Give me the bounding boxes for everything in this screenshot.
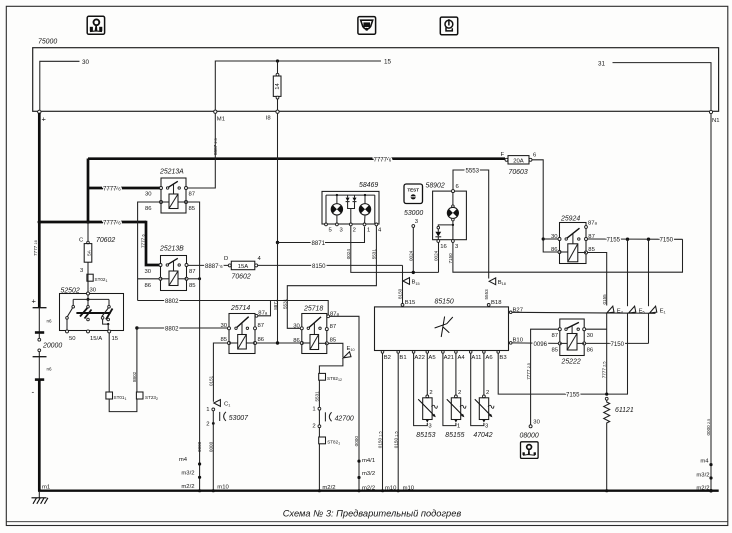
junction m2/2 ground tap [198, 489, 201, 492]
ECU bottom pin A22 [412, 351, 425, 361]
svg-text:7777 2.5: 7777 2.5 [526, 363, 531, 380]
component label 58469 [359, 182, 378, 189]
svg-text:75000: 75000 [38, 39, 57, 46]
junction 53007 ground [212, 489, 215, 492]
junction 0024 [412, 271, 415, 274]
pin 30 label ignition switch [90, 288, 97, 294]
wire 15 inside fuse box [215, 61, 381, 111]
wire 8150 drop to ECU B15 [402, 265, 404, 303]
wire 42700 to ST82_1 [318, 428, 320, 437]
junction x88 y222 [86, 220, 90, 224]
ECU bottom pin B1 [397, 351, 407, 361]
pin B10 label [513, 337, 524, 343]
svg-text:1: 1 [457, 423, 460, 429]
wire 25213B pin85 to 0000 drop [188, 278, 200, 280]
wire label 5553 [466, 167, 480, 174]
node 75000 fuse-box label [38, 39, 57, 46]
svg-text:m4/1: m4/1 [362, 458, 375, 464]
junction 8871 on 86 rail [276, 341, 279, 344]
junction 8802 [135, 326, 138, 329]
wire 7150 drop to 25222 pin 86 rail [648, 239, 650, 343]
icon engine preheat (top middle) [358, 17, 376, 35]
svg-text:30: 30 [82, 59, 90, 66]
connector ST82_12 [319, 373, 342, 381]
svg-text:8802: 8802 [165, 326, 179, 333]
junction 85 drop [198, 277, 201, 280]
connector diode C1 [214, 400, 231, 408]
wire label 7150 upper [660, 237, 674, 244]
node m1 label [42, 484, 50, 490]
svg-text:47042: 47042 [473, 432, 492, 439]
svg-text:8871: 8871 [273, 299, 278, 310]
control unit 85150 [375, 307, 509, 351]
component label 25924 [560, 216, 580, 223]
svg-text:2: 2 [353, 228, 356, 234]
node m2/2 label right [696, 486, 709, 492]
svg-text:87: 87 [330, 324, 337, 330]
node m10 label B2 [385, 485, 397, 491]
wire 25718 87a down to ground stack [330, 316, 359, 491]
wire label 0000 rotated x199 [197, 441, 202, 452]
svg-text:0024: 0024 [409, 250, 414, 261]
svg-text:B1: B1 [399, 355, 406, 361]
wire 8802 lower to relay 25714 pin 30 [137, 327, 228, 329]
wire 0024 test drop [412, 227, 414, 272]
component label 70602 (fuse C) [96, 237, 115, 244]
svg-text:2: 2 [458, 390, 461, 396]
node m3/2 label [181, 471, 194, 477]
svg-text:TEST: TEST [407, 188, 419, 193]
svg-text:2: 2 [206, 421, 209, 427]
wire ST01 u-turn to ST23 [109, 399, 137, 412]
svg-text:5531: 5531 [372, 249, 377, 260]
svg-text:85: 85 [189, 206, 196, 212]
wire A22 to sensor 85153 bottom [414, 353, 428, 425]
wire 7777 riser x88 (thick) [87, 159, 90, 224]
wire label 0096 [534, 341, 548, 348]
junction m2/2 ground tap right [709, 489, 713, 493]
wire 0024 riser to 58902 pin 16 [438, 241, 440, 272]
svg-text:n6: n6 [47, 367, 53, 372]
wire 8887 from M1 to relay 25213A pin 87 [188, 113, 216, 188]
svg-text:86: 86 [587, 348, 594, 354]
svg-text:85: 85 [189, 283, 196, 289]
pin circle 08000 [529, 425, 532, 428]
svg-text:42700: 42700 [335, 415, 354, 422]
svg-text:8150: 8150 [398, 288, 403, 299]
caption separator line [6, 521, 728, 523]
svg-text:30: 30 [551, 234, 558, 240]
wire B27 rail with E connectors [512, 312, 656, 313]
junction m3/2 tap right [709, 476, 712, 479]
wire E10 to ST82_12 [319, 359, 343, 374]
svg-text:m2/2: m2/2 [181, 484, 194, 490]
svg-text:85155: 85155 [445, 432, 464, 439]
wire 0150 from B2 to ground [382, 353, 384, 491]
svg-text:85150: 85150 [435, 298, 454, 305]
svg-text:0000: 0000 [197, 441, 202, 452]
pin 30 label 08000 [533, 420, 540, 426]
component label 25714 [230, 305, 250, 312]
wire 30 inside fuse box [40, 61, 80, 111]
svg-text:A4: A4 [458, 355, 466, 361]
junction B1 ground [397, 489, 400, 492]
svg-text:31: 31 [598, 60, 606, 67]
glow indicator lamp 58902 [433, 184, 467, 250]
svg-text:5A: 5A [87, 249, 92, 256]
ECU bottom pin A11 [469, 351, 481, 361]
svg-text:25222: 25222 [561, 358, 581, 365]
svg-text:C: C [79, 238, 84, 244]
node m4 label [179, 457, 188, 463]
wire 0155/7777 drop through E4 to 7155 rail [606, 313, 608, 394]
svg-text:0024: 0024 [346, 249, 351, 260]
component label 25718 [303, 305, 323, 312]
svg-text:15A: 15A [238, 264, 249, 270]
node m2/2 label 42700 [322, 485, 335, 491]
connector ST23_2 [136, 392, 158, 401]
component label 25213A [159, 169, 184, 176]
svg-text:7777 16: 7777 16 [33, 240, 38, 256]
relay 25213B [144, 256, 196, 291]
svg-text:m2/2: m2/2 [362, 485, 375, 491]
svg-text:30: 30 [533, 420, 540, 426]
svg-text:86: 86 [144, 283, 151, 289]
wire 7155 drop to B3 rail [627, 239, 629, 394]
svg-text:7150: 7150 [611, 341, 625, 348]
svg-text:5553: 5553 [484, 289, 489, 300]
wire fuse C feed from junction [87, 222, 89, 242]
wire 25714 pin85 to 0151 [213, 343, 227, 402]
flame glow plug 42700 [312, 407, 354, 430]
svg-text:30: 30 [144, 269, 151, 275]
svg-text:86: 86 [145, 206, 152, 212]
svg-text:58902: 58902 [426, 182, 445, 189]
wire label 8871 rotated [273, 299, 278, 310]
wire ignition 15 to ST01 [108, 333, 110, 392]
wire 5531 from 58469 pin 4 to relay 25718 pin 30 [287, 226, 376, 328]
svg-text:A21: A21 [444, 355, 454, 361]
pin battery plus terminal circle [38, 110, 41, 113]
svg-text:0000: 0000 [209, 441, 214, 452]
wire 25213A pin86 drop to 8802 [138, 202, 161, 301]
svg-text:A11: A11 [471, 355, 481, 361]
ground bus bottom (thick) [38, 490, 719, 492]
svg-text:8802: 8802 [165, 298, 179, 305]
svg-text:14: 14 [275, 83, 281, 90]
svg-text:08000: 08000 [520, 433, 539, 440]
lamp cluster 58469 [322, 191, 382, 233]
wire 86 rail 25714 to 25718 [257, 342, 302, 344]
svg-text:7777 2.5: 7777 2.5 [602, 362, 607, 379]
pin B27 label [513, 308, 523, 314]
svg-text:1: 1 [367, 228, 370, 234]
svg-text:15/A: 15/A [90, 336, 102, 342]
wire label 0024 rotated pin2 [346, 249, 351, 260]
wire 61121 to ground [606, 425, 608, 491]
svg-text:0000 2.5: 0000 2.5 [706, 419, 711, 436]
relay 25222 [551, 319, 593, 356]
wire label 0024 rotated riser [434, 250, 439, 261]
svg-text:2: 2 [312, 424, 315, 430]
wire ST82_1 to ground [318, 444, 320, 491]
wire label 5553 rotated [484, 289, 489, 300]
buzzer 53007 [206, 407, 249, 427]
wire label 0150 1.5 rotated B2 [378, 431, 383, 448]
svg-text:86: 86 [293, 338, 300, 344]
svg-text:0096: 0096 [534, 341, 548, 348]
svg-text:8887 2.5: 8887 2.5 [213, 138, 218, 155]
junction m3/2 tap right-center [357, 476, 360, 479]
svg-text:m2/2: m2/2 [322, 485, 335, 491]
svg-text:n6: n6 [47, 319, 53, 324]
svg-text:25924: 25924 [560, 216, 580, 223]
component label 25213B [159, 246, 184, 253]
svg-text:53000: 53000 [404, 210, 423, 217]
wire 5531 ST82 to 42700 [318, 380, 320, 407]
svg-text:A22: A22 [414, 355, 424, 361]
svg-text:0150 1.5: 0150 1.5 [378, 431, 383, 448]
wire 5553 from 58902 pin 6 over to B18 drop [453, 170, 489, 279]
connector ST02_1 [87, 274, 108, 283]
ECU bottom pin A4 [455, 351, 466, 361]
wire 8150 fuse D to ECU B15 branch [258, 264, 403, 266]
wire label 8887 6 [205, 263, 223, 270]
wire label 0000 rotated x359 [354, 436, 359, 447]
wire fuse F to relay 25924 [532, 160, 559, 252]
wire A11 to sensor 47042 bottom [471, 353, 484, 425]
svg-text:25213B: 25213B [159, 246, 184, 253]
svg-text:85: 85 [551, 348, 558, 354]
pin B15 circle [401, 304, 404, 307]
connector E5 [629, 306, 645, 314]
svg-text:m3/2: m3/2 [696, 472, 709, 478]
ECU bottom pin B2 [381, 351, 391, 361]
svg-text:m10: m10 [403, 485, 415, 491]
connector E4 [607, 306, 623, 314]
wire label 8871 [312, 240, 326, 247]
pin B10 stub [509, 342, 513, 345]
junction 25924 pin30 feed [542, 237, 545, 240]
wire label 0150 1.5 rotated B1 [393, 431, 398, 448]
wire 8887 6 from 25213B pin 87 to fuse D [188, 264, 229, 266]
sensor 47042 [475, 390, 494, 429]
wire 7155/7150 from 25924 pin 87 [588, 238, 683, 240]
fuse C 5A [79, 238, 92, 263]
wire 7150 from 58902 pin 3 [453, 239, 683, 272]
wire 0155 from 25924 pin 85 to E4 [588, 253, 607, 306]
relay 25213A [145, 178, 196, 213]
component label 25222 [561, 358, 581, 365]
wire 25222 pin 30 drop to 7150 rail [586, 328, 607, 330]
wire 7150 rail from 25222 pin 86 [586, 342, 649, 344]
pin I8 terminal circle [276, 110, 279, 113]
svg-text:m4: m4 [700, 459, 709, 465]
wire 7777 main feed y158 to fuse F (thick) [88, 157, 505, 160]
resistor 61121 [604, 397, 610, 425]
wire label 7777 6 on y222 [103, 220, 121, 227]
svg-text:A5: A5 [428, 355, 436, 361]
svg-text:7777 6: 7777 6 [141, 234, 146, 248]
component label 85155 [445, 432, 464, 439]
node plus label below fuse box [42, 115, 47, 124]
svg-text:85153: 85153 [416, 432, 435, 439]
connector E1 [650, 306, 666, 314]
svg-text:I8: I8 [266, 116, 272, 122]
ECU bottom pin A5 [426, 351, 436, 361]
wire label 7155 lower [566, 392, 580, 399]
junction 8871 [276, 241, 279, 244]
relay 25924 [551, 221, 598, 264]
junction 7777 branch at battery column [38, 220, 42, 224]
svg-text:58469: 58469 [359, 182, 378, 189]
svg-text:8871: 8871 [312, 240, 326, 247]
pin B15 label [405, 300, 416, 306]
node m3/2 label right [696, 472, 709, 478]
pin B18 label [491, 300, 502, 306]
wire A6 to sensor 47042 top [483, 353, 485, 395]
wire label 8802 lower [165, 326, 179, 333]
wire 25213B pin86 link [138, 278, 161, 280]
component label 85150 [435, 298, 454, 305]
wire 7777 battery positive feed (thick) [38, 113, 41, 308]
node 31 label [598, 60, 606, 67]
fuse 14 [273, 73, 281, 99]
wire label 0000 2.5 rotated N1 [706, 419, 711, 436]
wire label 7777 6 rotated on x146 [141, 234, 146, 248]
connector diode B18 [489, 278, 506, 286]
wire label 5531 rotated drop [283, 298, 288, 309]
svg-text:87: 87 [551, 333, 558, 339]
svg-text:B18: B18 [491, 300, 502, 306]
junction 61121 tap [605, 393, 608, 396]
pin N1 terminal circle [709, 110, 712, 113]
wire 25222 pin 87 to 08000 [531, 329, 559, 425]
pin 3 label fuse C [80, 268, 84, 274]
wire label 0151 rotated [209, 375, 214, 386]
svg-text:2: 2 [486, 390, 489, 396]
connector ST01_1 [106, 392, 127, 401]
junction m3/2 tap [198, 476, 201, 479]
node M1 label [217, 116, 225, 122]
svg-text:m10: m10 [217, 484, 229, 490]
node m2/2 label center [362, 485, 375, 491]
sensor 85153 [418, 390, 437, 429]
wire A21 to sensor 85155 bottom [443, 353, 456, 425]
wire to 25924 pin 30 [543, 238, 558, 240]
svg-text:87: 87 [189, 192, 196, 198]
node m10 label 53007 [217, 484, 229, 490]
svg-text:30: 30 [587, 333, 594, 339]
wire label 8150 [312, 263, 326, 270]
wire label 8802 upper [165, 298, 179, 305]
wire N1 ground return [710, 114, 712, 492]
wire label 7150 lower [611, 341, 625, 348]
wire label 5531 rotated 42700 [315, 391, 320, 402]
wire 0024 from 58469 pin 2 [351, 226, 439, 273]
node m4 label right [700, 459, 709, 465]
svg-text:8802: 8802 [132, 371, 137, 382]
svg-text:25714: 25714 [230, 305, 250, 312]
svg-text:0000: 0000 [354, 436, 359, 447]
svg-text:7150: 7150 [660, 237, 674, 244]
ECU bottom pin A21 [442, 351, 454, 361]
node m4/1 label [362, 458, 375, 464]
wire label 0000 rotated 53007 [209, 441, 214, 452]
svg-text:1: 1 [312, 407, 315, 413]
wire 8871 horizontal to 58469 pin 1 [278, 227, 365, 243]
svg-text:30: 30 [220, 323, 227, 329]
wire 0150 from B1 to ground [397, 353, 399, 491]
node 15 label [384, 59, 392, 66]
wire 25714 87a jog to 8802 [258, 301, 271, 316]
ECU bottom pin A6 [483, 351, 494, 361]
connector E10 [343, 346, 354, 358]
wire battery negative to ground bus (thick) [38, 380, 41, 491]
wire label 0155 rotated [602, 294, 607, 305]
component label 47042 [473, 432, 492, 439]
svg-text:7777 6: 7777 6 [103, 220, 121, 227]
svg-text:20A: 20A [513, 158, 524, 164]
svg-text:30: 30 [90, 288, 97, 294]
svg-text:30: 30 [145, 192, 152, 198]
node m2/2 label [181, 484, 194, 490]
junction 42700 ground [318, 489, 321, 492]
svg-text:B15: B15 [405, 300, 416, 306]
svg-text:N1: N1 [712, 118, 720, 124]
fuse D 15A 70602 [224, 256, 262, 280]
pin circle 53000 [412, 225, 415, 228]
svg-text:61121: 61121 [615, 407, 634, 414]
component label 08000 [520, 433, 539, 440]
ground symbol hatch [32, 491, 48, 504]
svg-text:7777 6: 7777 6 [374, 157, 392, 164]
wire label 7777 2.5 rotated x604 [602, 362, 607, 379]
relay 25718 [293, 311, 339, 353]
junction m4 tap [198, 462, 201, 465]
wire 31 inside fuse box [613, 63, 712, 112]
svg-text:16: 16 [440, 244, 447, 250]
wire label 7155 upper [607, 237, 621, 244]
svg-text:70603: 70603 [509, 169, 528, 176]
svg-text:5553: 5553 [466, 167, 480, 174]
svg-text:25718: 25718 [303, 305, 323, 312]
junction 7150 drop [647, 238, 650, 241]
svg-text:7155: 7155 [607, 237, 621, 244]
wire A5 to sensor 85153 top [426, 353, 428, 395]
junction B2 ground [381, 489, 384, 492]
svg-text:5531: 5531 [283, 298, 288, 309]
junction m2/2 ground tap right-center [357, 489, 360, 492]
wire 7155 from ECU B3 [498, 353, 628, 394]
ignition switch icon 08000 [521, 442, 539, 459]
test connector 53000 [404, 184, 423, 204]
svg-text:F: F [501, 152, 505, 158]
svg-text:5531: 5531 [315, 391, 320, 402]
svg-text:20000: 20000 [42, 343, 62, 350]
svg-text:8887 6: 8887 6 [205, 263, 223, 270]
svg-text:7150: 7150 [448, 253, 453, 264]
svg-text:70602: 70602 [232, 273, 251, 280]
svg-text:30: 30 [293, 323, 300, 329]
node 30 label [82, 59, 90, 66]
svg-text:M1: M1 [217, 116, 225, 122]
svg-text:15: 15 [112, 336, 119, 342]
wire 7777 horizontal branch y222 (thick) [39, 221, 146, 224]
svg-text:+: + [42, 115, 47, 124]
wire label 0024 rotated test [409, 250, 414, 261]
svg-text:m3/2: m3/2 [181, 471, 194, 477]
